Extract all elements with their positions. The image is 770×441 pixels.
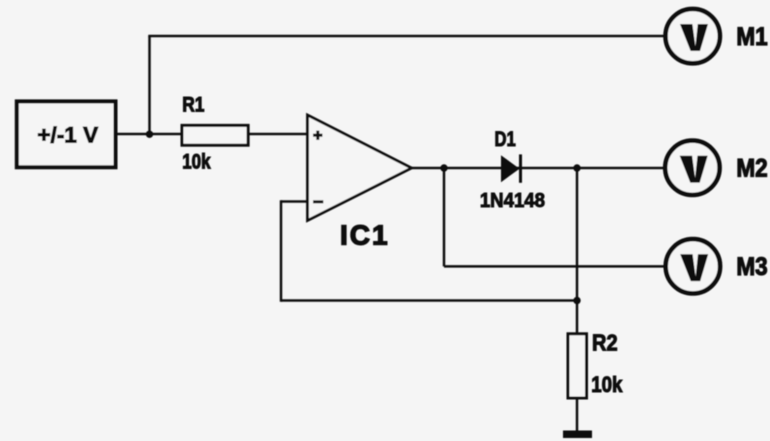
svg-text:M3: M3 <box>736 253 767 281</box>
svg-text:D1: D1 <box>495 128 516 151</box>
svg-text:10k: 10k <box>182 151 211 174</box>
svg-text:1N4148: 1N4148 <box>480 190 545 212</box>
svg-text:10k: 10k <box>591 374 623 398</box>
svg-text:IC1: IC1 <box>340 220 390 251</box>
svg-text:M2: M2 <box>736 154 767 182</box>
svg-text:M1: M1 <box>736 23 767 51</box>
svg-text:+/-1 V: +/-1 V <box>37 123 98 148</box>
svg-text:R2: R2 <box>592 329 618 356</box>
svg-text:R1: R1 <box>182 94 205 117</box>
